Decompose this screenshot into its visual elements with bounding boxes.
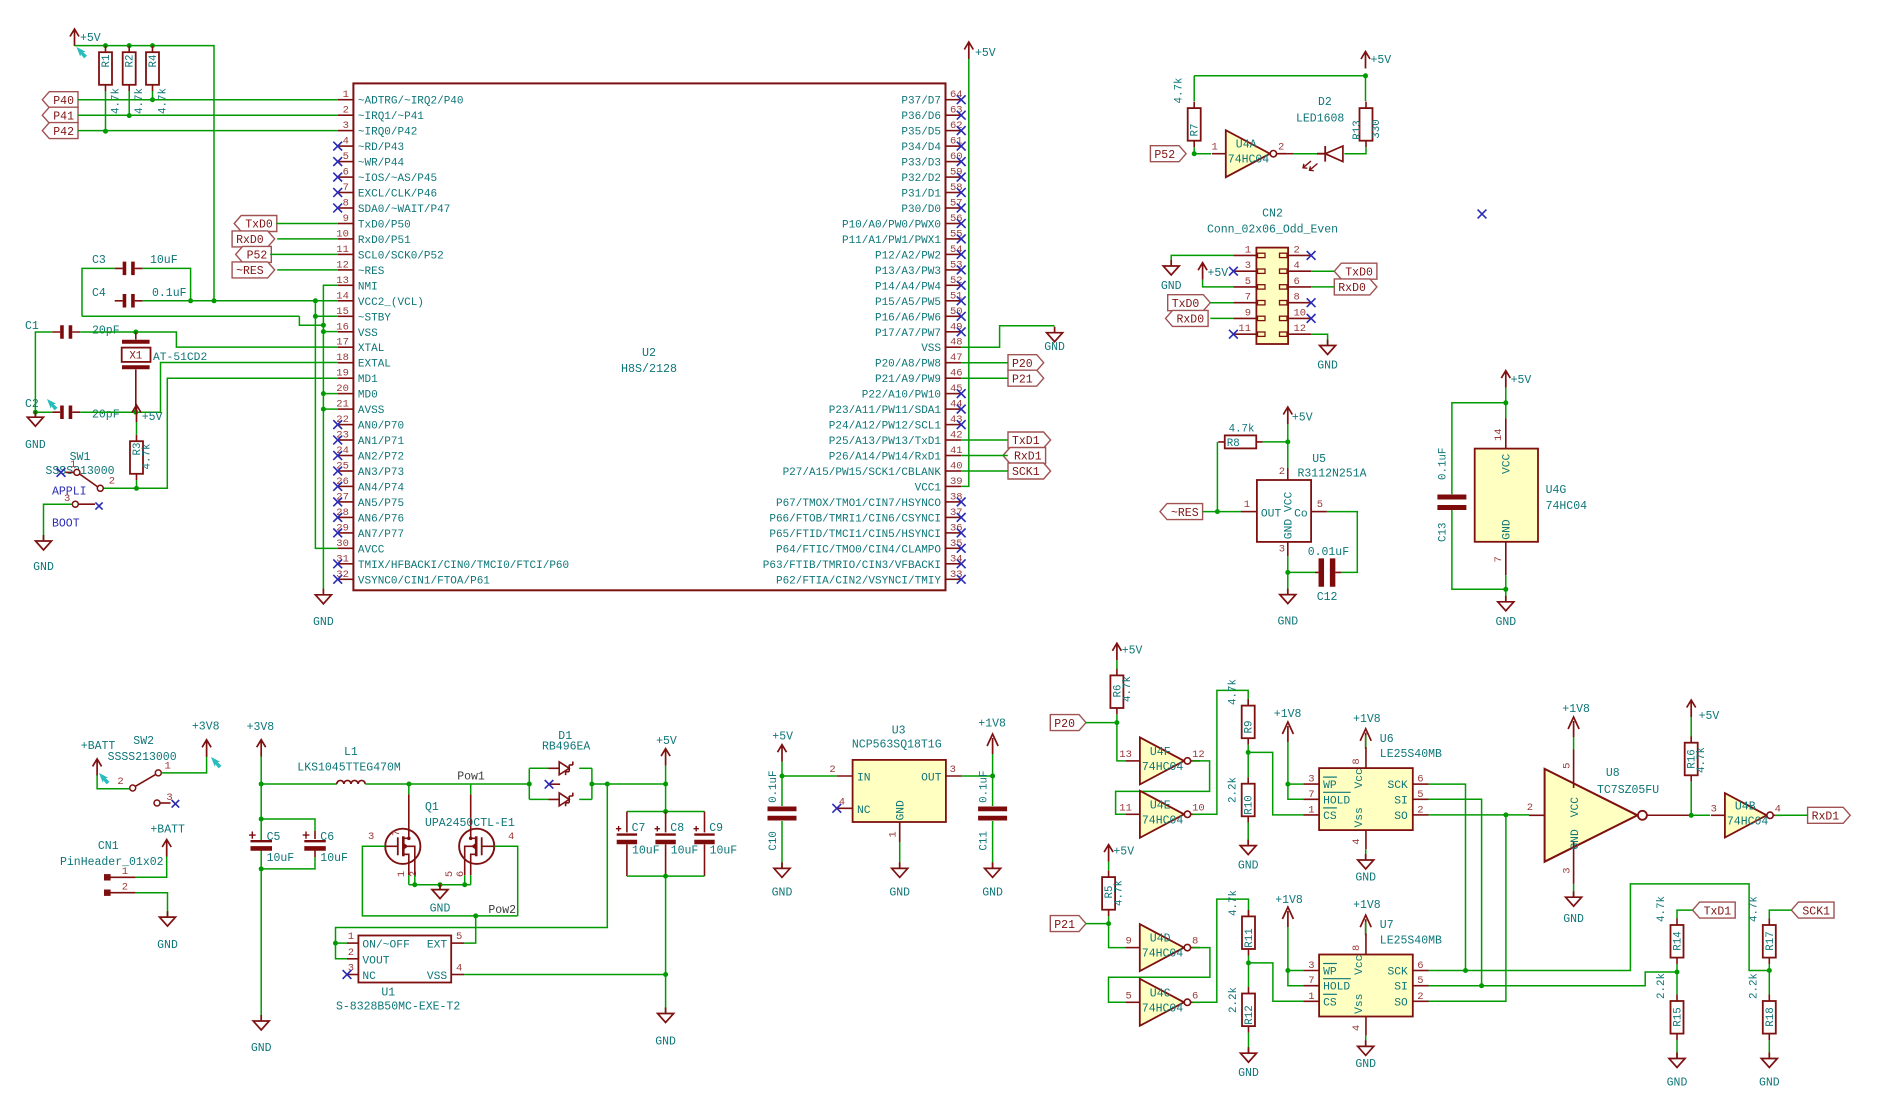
svg-text:2: 2 <box>348 947 354 959</box>
U2 pin 36 P65/FTID/TMCI1/CIN5/HSYNCI <box>769 522 965 541</box>
svg-text:R10: R10 <box>1244 795 1256 814</box>
svg-text:14: 14 <box>1493 428 1505 441</box>
svg-text:74HC04: 74HC04 <box>1142 814 1184 827</box>
U3 pin 3 OUT <box>921 764 962 785</box>
svg-text:HOLD: HOLD <box>1323 795 1350 807</box>
U2 pin 7 EXCL/CLK/P46 <box>333 182 437 201</box>
U2 pin 44 P23/A11/PW11/SDA1 <box>829 399 966 418</box>
svg-text:AN1/P71: AN1/P71 <box>358 436 405 448</box>
U2 pin 49 P17/A7/PW7 <box>875 321 966 340</box>
svg-text:+5V: +5V <box>656 735 677 748</box>
power +5V at R5 <box>1104 845 1134 862</box>
wire CN2 pin6 to RxD0 <box>1311 286 1334 288</box>
svg-text:P24/A12/PW12/SCL1: P24/A12/PW12/SCL1 <box>829 421 942 433</box>
svg-text:2: 2 <box>109 476 115 488</box>
svg-text:4: 4 <box>456 963 462 975</box>
U2 pin 15 ~STBY <box>336 306 391 325</box>
svg-text:10: 10 <box>336 228 349 240</box>
erc marker at SW2 batt <box>96 771 110 786</box>
ic U7 LE25S40MB pin 6 SCK <box>1387 960 1428 979</box>
wire U1 feed loop <box>336 784 608 958</box>
svg-text:4.7k: 4.7k <box>1114 880 1126 906</box>
svg-text:C8: C8 <box>670 822 684 835</box>
svg-text:2: 2 <box>1527 802 1533 814</box>
svg-text:GND: GND <box>1238 1067 1259 1080</box>
wire CN1 pin2 to gnd <box>136 893 168 917</box>
CN2 pin 8 <box>1280 292 1312 305</box>
svg-text:RxD0: RxD0 <box>236 234 264 247</box>
wire R7 bottom to P52 node <box>1193 147 1195 154</box>
U2 pin 5 ~WR/P44 <box>333 151 404 170</box>
CN2 pin 7 <box>1233 292 1265 305</box>
CN2 pin 5 <box>1233 276 1265 289</box>
wire pin40 to SCK1 <box>961 470 1008 472</box>
wire GND row under caps <box>82 315 299 317</box>
power +1V8 at U6 Vcc <box>1353 713 1381 749</box>
junction MD0 <box>321 391 326 396</box>
junction R9/R10/CS <box>1246 750 1251 755</box>
svg-text:4.7k: 4.7k <box>1228 890 1240 916</box>
svg-text:U5: U5 <box>1312 453 1326 466</box>
svg-text:P34/D4: P34/D4 <box>901 142 941 154</box>
resistor R18 <box>1763 995 1777 1041</box>
svg-text:P33/D3: P33/D3 <box>901 158 941 170</box>
svg-text:13: 13 <box>1119 749 1132 761</box>
capacitor C7 <box>616 812 660 877</box>
svg-text:10uF: 10uF <box>150 254 178 267</box>
svg-text:4: 4 <box>343 136 349 148</box>
power +5V top-left <box>70 29 101 46</box>
junction R4/P40 <box>150 97 155 102</box>
svg-text:R9: R9 <box>1244 721 1256 734</box>
svg-text:20: 20 <box>336 383 349 395</box>
svg-text:R17: R17 <box>1765 931 1777 950</box>
svg-text:AVSS: AVSS <box>358 405 385 417</box>
svg-text:C7: C7 <box>632 822 646 835</box>
junction VSS <box>321 329 326 334</box>
svg-text:GND: GND <box>1161 280 1182 293</box>
svg-text:12: 12 <box>336 259 349 271</box>
svg-text:~IOS/~AS/P45: ~IOS/~AS/P45 <box>358 173 437 185</box>
svg-text:9: 9 <box>1125 936 1131 948</box>
svg-text:3: 3 <box>1279 544 1285 556</box>
wire R8 left to ~RES node <box>1216 442 1218 512</box>
svg-text:30: 30 <box>336 538 349 550</box>
U2 pin 41 P26/A14/PW14/RxD1 <box>829 445 963 464</box>
wire U4A out to LED <box>1278 153 1293 155</box>
wire fet1 drain to rail <box>408 784 410 794</box>
wire VSS pin48 to gnd <box>961 326 1054 348</box>
capacitor C5 <box>249 831 294 865</box>
svg-text:2.2k: 2.2k <box>1228 987 1240 1013</box>
erc marker at SW2 3v8 <box>208 755 222 770</box>
U3 pin 4 NC <box>832 796 870 817</box>
svg-text:1: 1 <box>122 866 128 878</box>
wire R15 top <box>1676 972 1678 995</box>
resistor R5 <box>1102 871 1126 917</box>
svg-text:4: 4 <box>508 831 514 843</box>
svg-text:Co: Co <box>1294 508 1308 520</box>
wire U7 WP stub <box>1288 970 1304 972</box>
no-connect CN2 pin2 <box>1307 251 1316 260</box>
junction +5V rail/VCC2 <box>212 298 217 303</box>
svg-text:R13: R13 <box>1352 120 1364 139</box>
svg-text:Vss: Vss <box>1354 807 1366 827</box>
U2 pin 63 P36/D6 <box>901 105 965 124</box>
svg-text:GND: GND <box>1667 1077 1688 1090</box>
U8 pin 2 input <box>1527 802 1545 815</box>
svg-text:RxD1: RxD1 <box>1812 811 1840 824</box>
wire AVCC riser <box>315 301 337 549</box>
svg-text:GND: GND <box>655 1036 676 1049</box>
global label ~RES at U5 <box>1160 504 1203 520</box>
svg-text:P64/FTIC/TMO0/CIN4/CLAMPO: P64/FTIC/TMO0/CIN4/CLAMPO <box>776 544 941 556</box>
erc marker near C2 gnd <box>44 397 58 412</box>
svg-text:18: 18 <box>336 352 349 364</box>
svg-text:10uF: 10uF <box>267 852 295 865</box>
wire R14 bottom <box>1676 964 1678 972</box>
svg-text:C5: C5 <box>267 831 281 844</box>
svg-text:P20/A8/PW8: P20/A8/PW8 <box>875 359 941 371</box>
svg-text:AN7/P77: AN7/P77 <box>358 529 404 541</box>
ic U2 H8S/2128 body <box>353 83 945 590</box>
svg-text:VCC: VCC <box>1570 797 1582 818</box>
U2 pin 50 P16/A6/PW6 <box>875 306 966 325</box>
wire U6 Vss to gnd <box>1365 849 1367 860</box>
wire TxD0 to pin9 <box>276 223 337 225</box>
svg-text:R3112N251A: R3112N251A <box>1298 468 1367 481</box>
CN2 pin 2 <box>1280 244 1312 257</box>
wire R4 to P40 row <box>152 91 154 100</box>
power +1V8 at U8 <box>1562 703 1590 737</box>
svg-text:4.7k: 4.7k <box>1229 424 1255 436</box>
svg-text:GND: GND <box>157 939 178 952</box>
svg-text:+1V8: +1V8 <box>1353 899 1381 912</box>
junction R13 top <box>1363 73 1368 78</box>
U5 pin 3 GND <box>1279 519 1296 556</box>
svg-text:5: 5 <box>1245 276 1251 288</box>
capacitor C8 <box>655 812 699 877</box>
U2 pin 6 ~IOS/~AS/P45 <box>333 167 437 186</box>
global label P52 <box>236 246 272 262</box>
svg-text:P26/A14/PW14/RxD1: P26/A14/PW14/RxD1 <box>829 452 942 464</box>
CN2 pin 9 <box>1233 307 1265 320</box>
wire CN2 pin4 to TxD0 <box>1311 270 1334 272</box>
wire ~RES to U5 OUT <box>1203 511 1241 513</box>
power +1V8 at U7 WP <box>1275 894 1303 927</box>
ic U6 LE25S40MB pin 4 Vss <box>1351 807 1366 849</box>
svg-text:C6: C6 <box>320 831 334 844</box>
svg-text:~RES: ~RES <box>236 265 264 278</box>
power +5V at C10 <box>772 731 793 762</box>
U3 pin 2 IN <box>829 764 870 785</box>
ic U6 LE25S40MB pin 2 SO <box>1394 804 1428 823</box>
svg-text:+5V: +5V <box>1371 54 1392 67</box>
CN2 pin 11 <box>1233 323 1265 336</box>
svg-text:3: 3 <box>1245 260 1251 272</box>
svg-text:0.01uF: 0.01uF <box>1308 546 1350 559</box>
svg-text:4.7k: 4.7k <box>158 88 170 114</box>
wire SI net to TxD1 divider <box>1429 972 1678 986</box>
svg-text:+5V: +5V <box>1113 846 1134 859</box>
junction P21/R5/U4D <box>1106 921 1111 926</box>
wire +3V8 vertical to gnd <box>260 756 262 842</box>
svg-text:VSS: VSS <box>427 971 448 983</box>
junction C7 riser <box>663 782 668 787</box>
svg-text:3: 3 <box>343 120 349 132</box>
svg-text:+5V: +5V <box>142 411 163 424</box>
wire U4B out to RxD1 <box>1775 814 1808 816</box>
wire L1 to Pow1 rail <box>365 783 529 785</box>
U2 pin 57 P30/D0 <box>901 198 965 217</box>
svg-text:GND: GND <box>1238 860 1259 873</box>
connector CN1 pin 2 <box>105 882 136 896</box>
diode D1 RB496EA <box>542 730 590 806</box>
inverter U4F 74HC04 <box>1119 737 1204 784</box>
ground SW1 <box>33 535 54 574</box>
junction R17/R18 <box>1767 968 1772 973</box>
wire U6 SO to U8 input <box>1429 814 1530 816</box>
svg-text:+5V: +5V <box>1699 710 1720 723</box>
ground Q1 <box>430 884 451 916</box>
wire U5 Co to C12 right <box>1327 512 1357 573</box>
svg-text:RxD0/P51: RxD0/P51 <box>358 235 411 247</box>
power +BATT at CN1 <box>150 824 185 857</box>
wire +5V to VCC1 pin39 <box>961 59 969 486</box>
ground CN2 pin1 <box>1161 260 1182 293</box>
ic U7 LE25S40MB pin 2 SO <box>1394 991 1428 1010</box>
svg-text:Vcc: Vcc <box>1354 768 1366 788</box>
svg-text:P15/A5/PW5: P15/A5/PW5 <box>875 297 941 309</box>
connector CN2 Conn_02x06_Odd_Even <box>1207 208 1338 345</box>
svg-text:7: 7 <box>1245 292 1251 304</box>
svg-text:3: 3 <box>1711 803 1717 815</box>
ic U7 LE25S40MB pin 5 SI <box>1394 975 1428 994</box>
svg-text:TxD1: TxD1 <box>1704 905 1732 918</box>
wire C11 bottom <box>992 821 994 868</box>
ground U4G <box>1495 596 1516 629</box>
wire node down to U4F in <box>1117 723 1126 761</box>
wire C1 row to XTAL drop <box>80 332 338 347</box>
svg-text:39: 39 <box>950 476 963 488</box>
CN2 pin 6 <box>1280 276 1312 289</box>
text UPA2450CTL-E1 <box>425 817 515 830</box>
U2 pin 54 P12/A2/PW2 <box>875 244 966 263</box>
wire U8 out to R16 node <box>1647 814 1691 816</box>
wire CN1 pin1 to +BATT <box>136 857 167 878</box>
ground R15 <box>1667 1053 1688 1090</box>
junction AVSS <box>321 407 326 412</box>
wire D1 bot out <box>579 798 592 800</box>
svg-text:P40: P40 <box>53 95 74 108</box>
junction U7 WP/HOLD <box>1285 968 1290 973</box>
global label RxD0 CN2 left <box>1166 310 1209 326</box>
U4G pin 14 VCC <box>1493 418 1514 474</box>
resistor R7 <box>1174 78 1202 148</box>
svg-text:9: 9 <box>1245 307 1251 319</box>
svg-text:WP: WP <box>1323 967 1337 979</box>
svg-text:SW2: SW2 <box>133 735 154 748</box>
svg-text:U3: U3 <box>892 724 906 737</box>
junction crystal top <box>133 330 138 335</box>
capacitor C6 <box>303 831 348 865</box>
svg-text:+5V: +5V <box>975 47 996 60</box>
svg-text:1: 1 <box>396 871 408 877</box>
svg-text:P66/FTOB/TMRI1/CIN6/CSYNCI: P66/FTOB/TMRI1/CIN6/CSYNCI <box>769 513 941 525</box>
svg-text:IN: IN <box>857 773 871 785</box>
power +5V at Pow1 <box>656 735 677 765</box>
U2 pin 32 VSYNC0/CIN1/FTOA/P61 <box>333 569 490 588</box>
svg-text:SCK: SCK <box>1387 780 1408 792</box>
junction U1 feed <box>605 782 610 787</box>
svg-text:P30/D0: P30/D0 <box>901 204 941 216</box>
U1 pin 3 NC <box>343 963 377 984</box>
svg-text:C2: C2 <box>25 398 39 411</box>
U4G pin 7 GND <box>1493 519 1514 575</box>
resistor R14 <box>1671 919 1685 965</box>
svg-text:GND: GND <box>1355 1058 1376 1071</box>
U2 pin 43 P24/A12/PW12/SCL1 <box>829 414 966 433</box>
wire gnd rail C8 down <box>665 876 667 1013</box>
junction P20/R6/U4F <box>1114 720 1119 725</box>
U2 pin 31 TMIX/HFBACKI/CIN0/TMCI0/FTCI/P60 <box>333 553 569 572</box>
svg-text:16: 16 <box>336 321 349 333</box>
resistor R17 <box>1763 919 1777 965</box>
svg-text:12: 12 <box>1294 323 1307 335</box>
svg-text:P27/A15/PW15/SCK1/CBLANK: P27/A15/PW15/SCK1/CBLANK <box>783 467 942 479</box>
text CN1 <box>98 840 119 853</box>
svg-text:~IRQ1/~P41: ~IRQ1/~P41 <box>358 111 424 123</box>
inverter U4C 74HC04 <box>1125 979 1199 1026</box>
resistor R9 <box>1228 679 1256 745</box>
svg-text:+1V8: +1V8 <box>1275 894 1303 907</box>
junction WP/HOLD <box>1285 782 1290 787</box>
svg-text:R2: R2 <box>125 55 137 68</box>
svg-text:LKS1045TTEG470M: LKS1045TTEG470M <box>297 762 401 775</box>
erc marker arrow top-left <box>74 45 88 60</box>
svg-text:VSS: VSS <box>921 343 941 355</box>
svg-text:+5V: +5V <box>772 731 793 744</box>
svg-text:6: 6 <box>1417 960 1423 972</box>
svg-text:APPLI: APPLI <box>52 486 87 499</box>
svg-text:VCC1: VCC1 <box>915 482 942 494</box>
no-connect CN2 pin8 <box>1307 298 1316 307</box>
svg-text:42: 42 <box>950 430 963 442</box>
U2 pin 61 P34/D4 <box>901 136 965 155</box>
U2 pin 62 P35/D5 <box>901 120 965 139</box>
svg-text:13: 13 <box>336 275 349 287</box>
ic U7 LE25S40MB body <box>1319 919 1442 1016</box>
svg-text:S-8328B50MC-EXE-T2: S-8328B50MC-EXE-T2 <box>336 1001 460 1014</box>
U2 pin 35 P64/FTIC/TMO0/CIN4/CLAMPO <box>776 538 966 557</box>
wire C7-9 bottom row <box>627 875 705 877</box>
CN2 pin 12 <box>1280 323 1312 336</box>
wire C3 right to C4 right <box>143 268 191 300</box>
power +5V at U4G <box>1501 371 1531 388</box>
svg-text:BOOT: BOOT <box>52 518 80 531</box>
global label P42 <box>42 123 78 139</box>
wire LED to R13 <box>1344 147 1366 154</box>
global label TxD0 CN2 right <box>1334 263 1377 279</box>
wire C13 top <box>1452 403 1506 494</box>
power +5V at R16 <box>1687 700 1720 723</box>
svg-text:TxD0/P50: TxD0/P50 <box>358 220 411 232</box>
transistor Q1 UPA2450CTL-E1 fet1 <box>368 794 420 877</box>
wire +1V8 to U7 Vcc <box>1365 922 1367 934</box>
svg-text:1: 1 <box>165 761 171 773</box>
wire R10 to gnd <box>1247 822 1249 845</box>
svg-text:VSYNC0/CIN1/FTOA/P61: VSYNC0/CIN1/FTOA/P61 <box>358 575 490 587</box>
svg-text:74HC04: 74HC04 <box>1546 500 1588 513</box>
ground R10 <box>1238 840 1259 873</box>
wire +5V rail to R1 R2 R4 and down <box>75 46 215 301</box>
svg-text:P21/A9/PW9: P21/A9/PW9 <box>875 374 941 386</box>
wire +5V to CN2 pin5 <box>1203 280 1234 287</box>
junction D1 right <box>589 782 594 787</box>
ic U6 LE25S40MB body <box>1319 733 1442 830</box>
svg-text:P32/D2: P32/D2 <box>901 173 941 185</box>
svg-text:R8: R8 <box>1227 438 1240 450</box>
text Q1 <box>425 801 439 814</box>
svg-text:P37/D7: P37/D7 <box>901 96 941 108</box>
svg-text:11: 11 <box>1119 802 1132 814</box>
svg-text:TC7SZ05FU: TC7SZ05FU <box>1597 784 1659 797</box>
ground 3V8 rail <box>251 1015 272 1055</box>
junction R3/SW1/MD1 <box>134 486 139 491</box>
svg-text:10: 10 <box>1294 307 1307 319</box>
junction q1 src a <box>412 882 417 887</box>
svg-text:U4B: U4B <box>1735 800 1756 813</box>
CN2 pin 1 <box>1233 244 1265 257</box>
U2 pin 20 MD0 <box>336 383 377 402</box>
junction C8 top <box>663 809 668 814</box>
svg-text:OUT: OUT <box>1261 508 1282 520</box>
svg-text:1: 1 <box>1308 804 1314 816</box>
wire P20 to node <box>1086 722 1117 724</box>
svg-text:TxD0: TxD0 <box>1345 266 1373 279</box>
svg-text:20pF: 20pF <box>92 325 120 338</box>
resistor R16 <box>1685 736 1709 782</box>
svg-text:4.7k: 4.7k <box>142 444 154 470</box>
resistor R4 <box>146 46 170 114</box>
svg-text:~ADTRG/~IRQ2/P40: ~ADTRG/~IRQ2/P40 <box>358 96 464 108</box>
svg-text:AN6/P76: AN6/P76 <box>358 513 404 525</box>
svg-text:P17/A7/PW7: P17/A7/PW7 <box>875 328 941 340</box>
power +5V at R3 <box>132 405 163 424</box>
svg-text:5: 5 <box>456 931 462 943</box>
svg-text:+1V8: +1V8 <box>978 718 1006 731</box>
junction R11/R12/CS <box>1246 960 1251 965</box>
U2 pin 56 P10/A0/PW0/PWX0 <box>842 213 966 232</box>
svg-text:LE25S40MB: LE25S40MB <box>1380 748 1442 761</box>
svg-text:GND: GND <box>1759 1077 1780 1090</box>
wire Pow2 to EXT pin <box>464 916 476 943</box>
junction AVCC riser on STBY <box>313 314 318 319</box>
svg-text:2: 2 <box>122 882 128 894</box>
U2 pin 18 EXTAL <box>336 352 391 371</box>
wire fet1 gate to Pow2 <box>362 846 517 916</box>
svg-text:TMIX/HFBACKI/CIN0/TMCI0/FTCI/P: TMIX/HFBACKI/CIN0/TMCI0/FTCI/P60 <box>358 560 569 572</box>
U2 pin 22 AN0/P70 <box>333 414 404 433</box>
svg-text:7: 7 <box>343 182 349 194</box>
svg-text:P20: P20 <box>1054 718 1075 731</box>
resistor R13 <box>1352 102 1383 148</box>
wire D1 bot in <box>529 798 548 800</box>
svg-text:LE25S40MB: LE25S40MB <box>1380 935 1442 948</box>
svg-text:SI: SI <box>1394 795 1408 807</box>
svg-text:U8: U8 <box>1606 767 1620 780</box>
wire fet2 gate to Pow2 <box>494 846 517 916</box>
